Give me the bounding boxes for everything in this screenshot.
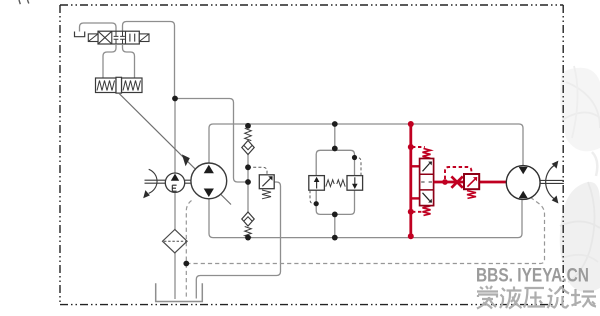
cropped text marks top-left (19, 0, 29, 4)
cross relief valve RV2 (left) (309, 176, 325, 204)
red spring bottom (423, 206, 431, 216)
flushing shuttle valve V2 (420, 159, 434, 206)
svg-text:BBS. IYEYA.CN: BBS. IYEYA.CN (476, 265, 589, 287)
wire: filter to tank (174, 253, 176, 299)
爱 (477, 286, 498, 309)
red pilot dashed of flushing relief (445, 167, 471, 179)
wire: tank vent line of pilot valve (80, 23, 117, 32)
wire: charge line to top valve (123, 22, 175, 99)
red junction nodes (408, 121, 448, 239)
cross relief valve RV3 (right) (347, 158, 363, 191)
坛 (571, 289, 596, 307)
wire: charge pump pressure riser (174, 99, 176, 174)
wire: pump case drain (186, 201, 191, 299)
cross-port relief assembly bracket (316, 150, 354, 214)
main variable pump P1 (191, 163, 227, 199)
pressure regulator R1 (dual spring boxes) (96, 77, 143, 93)
液 (500, 287, 522, 309)
flushing relief valve RV4 (464, 174, 479, 198)
spring left (97, 81, 115, 91)
pilot directional valve V1 (solenoid operated) (98, 31, 139, 44)
tank (156, 283, 203, 301)
globe watermark background (560, 66, 600, 292)
charge pump P2 (165, 173, 184, 192)
red spring top (423, 148, 431, 158)
motor shaft (540, 180, 564, 183)
middle cell blocked ports (114, 31, 125, 44)
dark junction nodes (172, 96, 357, 267)
red line relief to motor (479, 181, 506, 184)
hanzi watermark (drawn strokes) (477, 286, 596, 309)
wire: charge branch verticals (247, 155, 249, 213)
red pilot dashed bottom (412, 211, 425, 213)
hydraulic motor M1 (506, 166, 540, 200)
red shuttle supply line (409, 124, 412, 237)
tank symbol T1 (75, 32, 85, 37)
boundary frame (dash-dot) (60, 5, 563, 305)
case drain lines (dashed gray) (186, 198, 544, 298)
压 (524, 288, 545, 308)
red port stub A (411, 165, 420, 167)
plugged port X (451, 176, 462, 187)
wire: stroking control line diagonal (119, 93, 231, 204)
shaft and rotation arrow S1 (145, 169, 192, 193)
charge check valve CV1 (upper) (242, 128, 254, 154)
charge relief valve RV1 (248, 167, 274, 199)
right cell two lines (130, 34, 135, 42)
red line to flushing relief (434, 181, 464, 184)
filter F1 (163, 230, 188, 253)
arrowhead on control line (182, 154, 190, 166)
left cell cross (98, 31, 112, 44)
wire: valve to regulator right (123, 44, 135, 78)
charge check valve CV2 (lower) (242, 212, 254, 237)
wire: relief to tank return (196, 182, 280, 299)
wire: suction line pump to filter (174, 192, 176, 229)
springs between RV2 RV3 (326, 180, 345, 187)
wire: bottom loop line B (209, 199, 522, 238)
spring right (123, 81, 141, 91)
wire: charge line across to relief node (175, 99, 248, 183)
论 (548, 287, 570, 309)
wire: cross-relief bottom stub (334, 214, 336, 237)
solenoid a (88, 34, 98, 42)
wire: cross-relief top stub (334, 124, 336, 150)
red port stub B (411, 197, 420, 199)
wire: drain manifold to tank (186, 198, 544, 264)
red pilot dashed top (412, 146, 425, 148)
solenoid b (139, 34, 149, 42)
wire: valve to regulator left (103, 44, 116, 78)
motor rotation arrows (546, 161, 559, 204)
wire: top loop line A (209, 124, 523, 166)
